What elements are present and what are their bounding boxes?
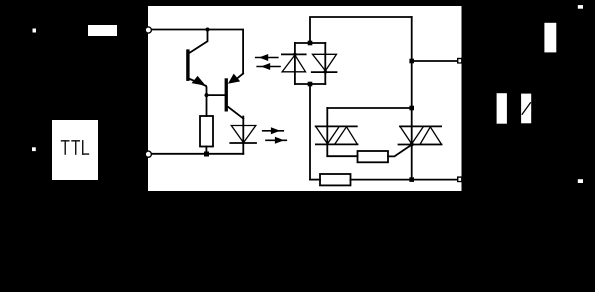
resistor R2 (358, 151, 389, 162)
wire: Q2 base (207, 94, 225, 96)
light arrow into photo-diac (lower) (257, 63, 280, 70)
node: bottom junction (204, 152, 209, 157)
diode up (left) (282, 53, 306, 55)
label mark: small square lower-left (32, 147, 36, 151)
label block: right middle bar 2 (with slash) (521, 94, 531, 124)
label block: right middle bar 1 (497, 93, 507, 124)
light arrow from LED (upper) (263, 127, 284, 134)
schematic panel (148, 6, 462, 191)
wire: photo-diac to bottom rail (309, 84, 311, 180)
wire: bottom rail left (310, 179, 320, 181)
light arrow into photo-diac (upper) (256, 54, 278, 61)
node on main line (upper) (409, 59, 414, 64)
label block: right upper bar (544, 23, 556, 53)
wire: top rail to main line (310, 17, 412, 43)
node: Q1 base junction (206, 28, 210, 32)
terminal T1 (square) (457, 58, 462, 64)
resistor R3 (320, 174, 351, 185)
resistor R1 (200, 116, 213, 147)
wire: R1 bottom lead (205, 147, 207, 154)
label block: input label (88, 25, 117, 36)
light arrow from LED (lower) (266, 137, 286, 144)
wire: gate rail (327, 107, 411, 109)
TTL logic block (52, 120, 98, 180)
diac D2 (left) (316, 108, 358, 156)
transistor Q1 (186, 49, 206, 95)
wire: main vertical line (411, 17, 413, 180)
wire: input bottom rail (151, 153, 243, 155)
label mark: tiny blob right-lower (578, 179, 583, 183)
wire: R2 to triac gate (388, 145, 412, 157)
wire: input top rail (151, 30, 243, 74)
diode down (right) (313, 54, 337, 71)
node on bottom rail (409, 177, 414, 182)
wire: diac to resistor R2 (327, 155, 357, 157)
node on main line (gate rail) (409, 106, 414, 111)
LED D1 (230, 117, 256, 154)
wire: bottom rail right (351, 179, 458, 181)
node dots (308, 41, 313, 46)
photo-diac U1 (282, 41, 337, 87)
terminal T2 (square) (457, 176, 462, 182)
input terminal top (circle) (145, 27, 151, 33)
triac TR1 (main) (399, 126, 442, 144)
label mark: tiny blob top-right (578, 5, 583, 9)
wire: to terminal T1 (412, 60, 457, 62)
transistor Q2 (225, 74, 244, 119)
node: Q1 emitter / Q2 base junction (205, 93, 209, 97)
input terminal bottom (circle) (145, 151, 151, 157)
wire: Q1 base lead (190, 30, 208, 53)
wire: to resistor R1 (206, 95, 208, 116)
label mark: small square upper-left (33, 29, 37, 33)
node: triac gate junction (410, 143, 414, 147)
